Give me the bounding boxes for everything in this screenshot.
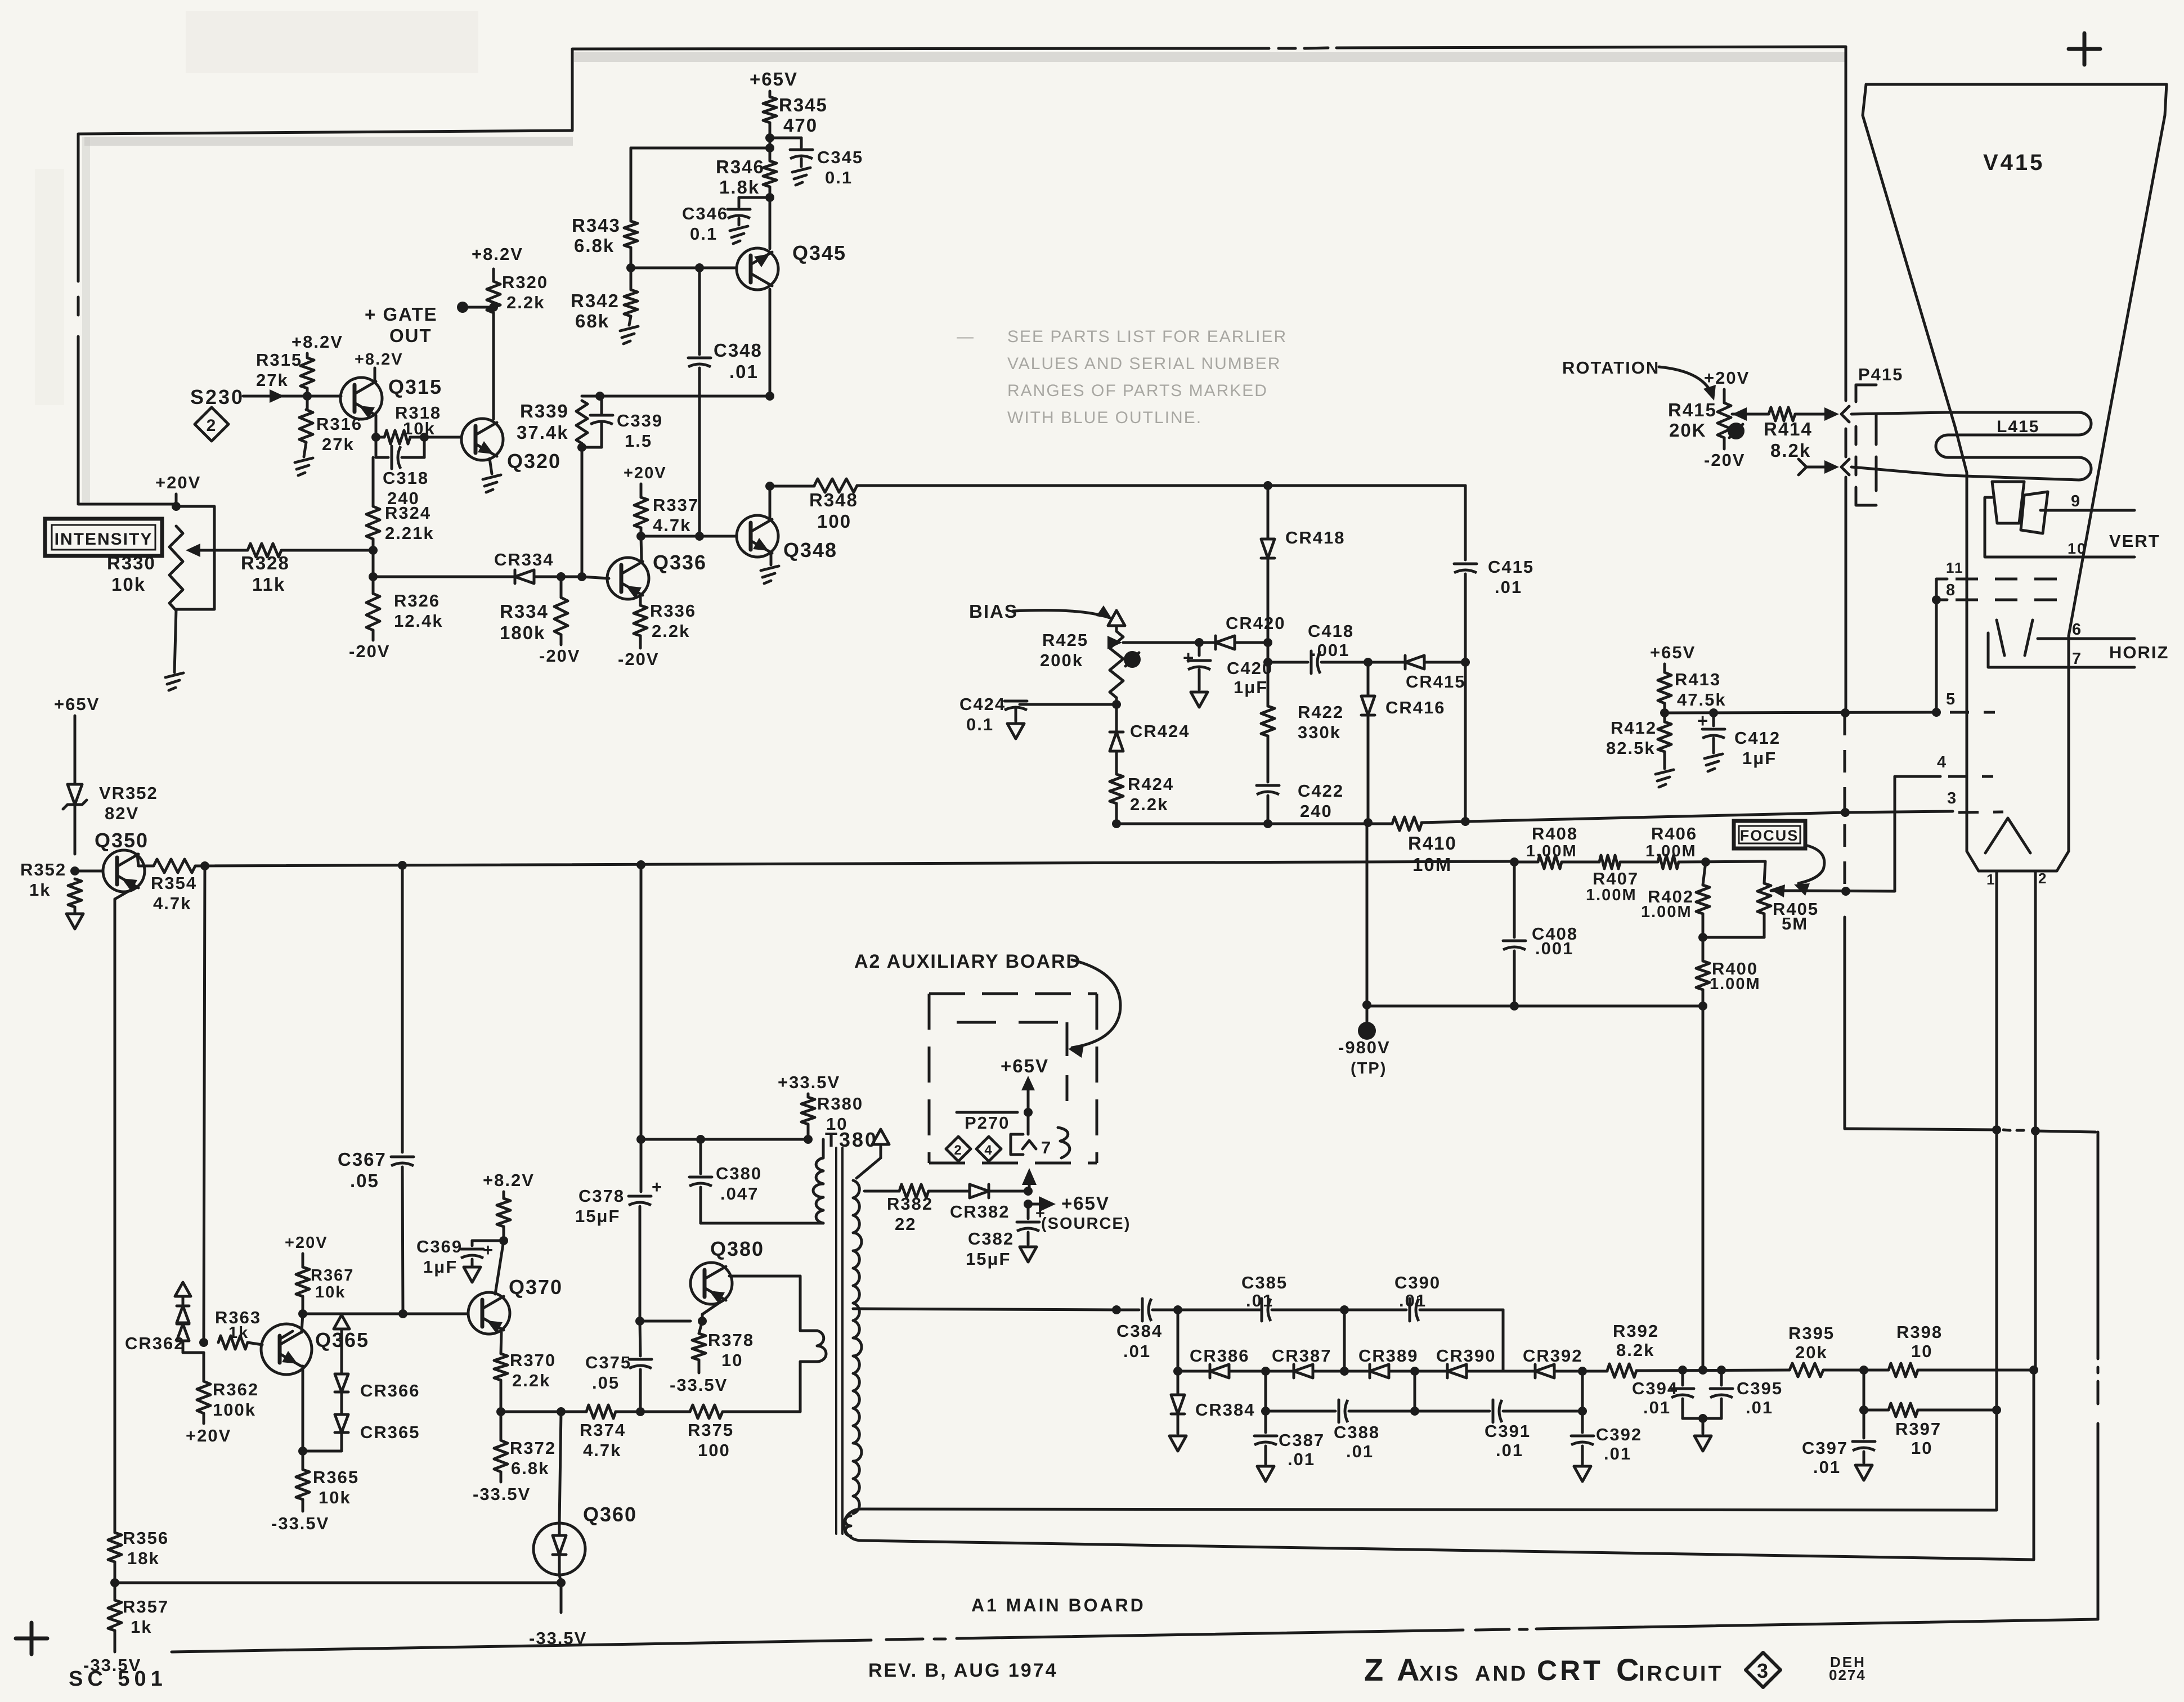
resistor R337	[634, 495, 699, 535]
horiz plates	[1988, 620, 2033, 667]
wire R343 top rail	[631, 147, 769, 150]
transformer T380 secondary	[853, 1180, 862, 1514]
A2 inner right edge	[1066, 1022, 1069, 1101]
svg-text:FOCUS: FOCUS	[1740, 827, 1799, 844]
wire CRT pin2 down	[2034, 871, 2037, 1131]
wire Q350 collector to rail	[137, 854, 138, 866]
resistor R320	[487, 272, 548, 313]
svg-text:+: +	[1697, 710, 1709, 731]
svg-text:C422: C422	[1298, 781, 1344, 801]
wire arrow to secondary	[856, 1158, 881, 1178]
svg-text:R415: R415	[1668, 399, 1717, 420]
svg-text:.01: .01	[1643, 1398, 1671, 1417]
label -33.5V (R365)	[271, 1499, 329, 1533]
wire Q345 emitter down	[769, 289, 772, 396]
arrow ROTATION	[1659, 367, 1716, 401]
wire R318 to Q320 base	[410, 433, 460, 442]
svg-text:R346: R346	[716, 156, 765, 177]
transistor Q365	[261, 1324, 369, 1375]
wire: boundary step vertical	[571, 49, 574, 131]
wire CRT pin1 down	[1995, 871, 1998, 1130]
svg-text:R397: R397	[1895, 1419, 1941, 1439]
wire R356 to R357	[110, 1562, 119, 1600]
wire main rail to R408	[1510, 857, 1538, 866]
title SC 501	[69, 1667, 167, 1691]
svg-text:R408: R408	[1532, 824, 1578, 843]
wire CR418 to C418 row	[1263, 558, 1272, 667]
label -20V (R415)	[1704, 438, 1745, 470]
wire C378 column top	[640, 865, 643, 1139]
svg-text:200k: 200k	[1040, 650, 1083, 670]
svg-text:CR384: CR384	[1195, 1400, 1255, 1420]
svg-text:R370: R370	[510, 1350, 556, 1370]
wire R425 to CR424	[1115, 698, 1118, 731]
wire R339 top to Q345 emitter node	[602, 392, 774, 401]
svg-text:+20V: +20V	[1704, 368, 1750, 388]
capacitor C391	[1485, 1400, 1531, 1460]
wire CR392 node down	[1578, 1367, 1587, 1411]
svg-text:100: 100	[817, 511, 851, 532]
diode CR420	[1216, 613, 1286, 649]
resistor R392	[1607, 1321, 1659, 1377]
svg-text:+: +	[1183, 647, 1195, 668]
svg-text:1k: 1k	[131, 1617, 152, 1637]
pot R425 knob	[1124, 651, 1141, 668]
svg-text:R392: R392	[1613, 1321, 1659, 1341]
ground R342	[620, 316, 638, 344]
wire R380 to rail	[807, 1124, 810, 1139]
wire +65V source arrow	[1024, 1193, 1131, 1233]
svg-text:10k: 10k	[403, 419, 436, 438]
wire R402/R405 bottom link	[1703, 914, 1764, 937]
wire R363 to Q365	[248, 1342, 262, 1345]
label +8.2V (R315)	[292, 332, 343, 352]
svg-text:CR362: CR362	[125, 1333, 185, 1353]
transistor Q380	[690, 1237, 764, 1304]
wire R375 to winding	[723, 1411, 800, 1413]
arrow BIAS to pot	[1013, 605, 1112, 619]
pot R425 wiper	[1107, 636, 1122, 649]
wire R345 to R346	[765, 123, 774, 161]
resistor R357	[108, 1597, 169, 1637]
svg-text:-33.5V: -33.5V	[473, 1484, 531, 1504]
transformer T380 feedback winding	[800, 1331, 826, 1412]
svg-text:C390: C390	[1394, 1273, 1441, 1292]
svg-text:-33.5V: -33.5V	[670, 1375, 728, 1395]
svg-text:5: 5	[1946, 690, 1956, 708]
svg-text:T380: T380	[825, 1128, 878, 1151]
wire pin 8 row	[1932, 581, 1956, 604]
svg-text:C387: C387	[1279, 1430, 1325, 1450]
wire R395 to R398	[1823, 1366, 1889, 1375]
svg-text:AND: AND	[1475, 1662, 1528, 1686]
svg-text:+: +	[483, 1240, 494, 1260]
svg-text:R362: R362	[213, 1380, 259, 1399]
wire pin 9	[2041, 492, 2134, 510]
svg-text:R339: R339	[520, 401, 569, 421]
svg-text:C345: C345	[817, 147, 863, 167]
svg-text:-980V: -980V	[1338, 1038, 1391, 1057]
svg-text:10k: 10k	[315, 1283, 346, 1301]
svg-text:.01: .01	[1288, 1449, 1315, 1469]
resistor R408	[1526, 824, 1578, 869]
svg-text:R407: R407	[1593, 869, 1639, 888]
wire R397 branch down	[1859, 1370, 1868, 1414]
svg-text:CR387: CR387	[1272, 1346, 1332, 1366]
svg-text:R375: R375	[688, 1420, 734, 1440]
wire C318 branch right	[423, 437, 426, 457]
transistor Q315	[340, 375, 442, 419]
transistor Q345	[737, 241, 846, 290]
capacitor C412	[1697, 710, 1781, 771]
wire R343 top drop	[630, 148, 633, 221]
svg-text:330k: 330k	[1298, 722, 1341, 742]
wire pin2 below bus	[2034, 1131, 2037, 1370]
svg-text:R374: R374	[580, 1420, 626, 1440]
diode CR386	[1178, 1346, 1266, 1378]
label pin 2	[2038, 870, 2047, 887]
wire P415 pin2 to CRT	[1851, 467, 1948, 475]
capacitor C345 branch	[770, 138, 863, 187]
label BIAS	[969, 601, 1018, 622]
svg-text:C388: C388	[1334, 1422, 1380, 1442]
svg-text:R406: R406	[1651, 824, 1697, 843]
resistor R334	[500, 577, 568, 643]
label -20V (R334)	[539, 635, 580, 666]
svg-text:(TP): (TP)	[1351, 1059, 1387, 1077]
svg-text:82V: 82V	[105, 803, 139, 823]
svg-text:1μF: 1μF	[1742, 748, 1777, 768]
svg-text:+20V: +20V	[285, 1234, 328, 1252]
wire R414 to P415 pin	[1795, 407, 1839, 421]
wire Q350 base	[75, 870, 103, 873]
svg-text:8: 8	[1946, 581, 1956, 599]
svg-text:6.8k: 6.8k	[574, 235, 615, 256]
svg-text:C397: C397	[1802, 1438, 1848, 1458]
svg-text:3: 3	[1757, 1659, 1769, 1682]
svg-text:1k: 1k	[228, 1324, 249, 1342]
wire C318 branch left	[375, 437, 378, 457]
svg-text:Z: Z	[1364, 1652, 1384, 1687]
ground Q348	[761, 566, 779, 583]
svg-text:+65V: +65V	[1650, 643, 1696, 662]
label +20V (R330)	[155, 473, 201, 492]
svg-text:CR386: CR386	[1190, 1346, 1250, 1366]
svg-text:-20V: -20V	[539, 646, 580, 666]
svg-text:P415: P415	[1858, 365, 1903, 384]
wire pin5 rail	[1665, 708, 1941, 717]
svg-text:82.5k: 82.5k	[1606, 738, 1656, 758]
svg-text:S230: S230	[190, 385, 244, 408]
svg-text:+33.5V: +33.5V	[778, 1072, 840, 1092]
diode CR389	[1344, 1346, 1419, 1378]
svg-text:CR415: CR415	[1406, 672, 1466, 691]
svg-text:27k: 27k	[256, 370, 289, 390]
svg-text:-33.5V: -33.5V	[83, 1655, 141, 1675]
wire pin8 dash	[1956, 599, 2060, 601]
svg-text:R372: R372	[510, 1438, 556, 1458]
wire +65V arrow (A2)	[1021, 1076, 1035, 1134]
pot R330 wiper	[186, 544, 214, 557]
svg-text:R380: R380	[817, 1094, 863, 1113]
capacitor C385	[1241, 1273, 1288, 1321]
wire C385 drop	[1173, 1310, 1182, 1376]
wire +20V to R415	[1723, 389, 1726, 403]
label A2 AUXILIARY BOARD	[854, 951, 1081, 972]
svg-text:C367: C367	[338, 1149, 387, 1170]
wire pin4 row	[1895, 776, 1940, 891]
pot R415 wiper	[1732, 407, 1747, 421]
capacitor C346 branch	[682, 197, 770, 244]
label P415	[1858, 365, 1903, 384]
resistor R370	[494, 1350, 556, 1390]
resistor R414	[1764, 407, 1813, 461]
resistor R382	[887, 1184, 933, 1234]
resistor R402	[1641, 862, 1710, 921]
svg-text:CR366: CR366	[360, 1381, 420, 1400]
wire VR352 to R352	[70, 806, 79, 875]
box INTENSITY	[45, 519, 162, 556]
svg-text:R378: R378	[708, 1330, 754, 1350]
svg-text:Q370: Q370	[509, 1276, 563, 1299]
resistor R400	[1696, 959, 1761, 993]
wire S230 arrow	[243, 389, 284, 403]
label R352 1k	[20, 860, 66, 900]
diamond ref 2 (P270)	[946, 1137, 971, 1161]
wire R367 to rail C	[302, 1296, 304, 1314]
capacitor C384	[1116, 1299, 1178, 1361]
svg-text:C: C	[1616, 1652, 1640, 1687]
wire CR390 node down	[1414, 1371, 1416, 1411]
transformer T380 core	[836, 1148, 842, 1534]
svg-text:.01: .01	[729, 361, 759, 382]
wire Q345 base row	[626, 263, 737, 272]
title DEH 0274	[1829, 1654, 1866, 1683]
resistor R406	[1620, 824, 1697, 869]
label +65V (VR352)	[54, 694, 100, 714]
wire Q320 collector up	[492, 313, 495, 419]
wire Q360 bottom	[557, 1575, 566, 1613]
svg-text:2: 2	[2038, 870, 2047, 887]
A2 box right edge	[1096, 994, 1098, 1163]
registration mark top right	[2069, 33, 2100, 65]
resistor R407	[1562, 855, 1639, 904]
capacitor C369	[416, 1237, 504, 1282]
title REV. B, AUG 1974	[868, 1660, 1058, 1681]
svg-text:R382: R382	[887, 1194, 933, 1214]
resistor R410	[1392, 817, 1457, 875]
label +65V (A2)	[1001, 1056, 1049, 1076]
svg-text:1k: 1k	[29, 880, 51, 900]
wire: A1 board boundary right edge	[2097, 1132, 2100, 1619]
label pin 3	[1947, 789, 1957, 807]
svg-text:C346: C346	[682, 204, 728, 223]
svg-text:CR365: CR365	[360, 1422, 420, 1442]
wire secondary to R382	[864, 1190, 899, 1193]
svg-text:0.1: 0.1	[966, 715, 994, 734]
wire: A1 board boundary left edge	[77, 134, 80, 504]
capacitor C397	[1802, 1410, 1875, 1480]
capacitor C378	[575, 1139, 663, 1321]
label P270	[965, 1113, 1010, 1133]
transformer T380 primary	[813, 1139, 823, 1223]
wire Q348 collector	[765, 482, 774, 518]
label +20V (R337)	[624, 464, 667, 482]
svg-text:A1 MAIN BOARD: A1 MAIN BOARD	[971, 1595, 1146, 1615]
wire +GATE OUT to R320	[463, 303, 498, 312]
label +8.2V (Q315)	[355, 351, 403, 369]
svg-text:—: —	[957, 327, 975, 346]
resistor R343	[572, 215, 638, 256]
arrow up R425 top	[1108, 610, 1125, 631]
wire +65V to R413	[1663, 664, 1666, 672]
svg-text:10: 10	[1911, 1438, 1932, 1458]
resistor R346	[716, 156, 777, 197]
svg-text:VALUES AND SERIAL NUMBER: VALUES AND SERIAL NUMBER	[1007, 354, 1281, 373]
note see parts list (gray)	[957, 327, 1287, 427]
capacitor C380	[689, 1139, 823, 1223]
resistor R356	[108, 1528, 169, 1568]
resistor R374	[580, 1405, 626, 1460]
svg-text:C348: C348	[714, 340, 763, 361]
wire pin 7	[2025, 650, 2134, 668]
pot R405 wiper	[1770, 884, 1795, 897]
svg-text:C415: C415	[1488, 557, 1534, 577]
wire C390 drop	[1340, 1310, 1349, 1376]
node S230 input	[190, 385, 244, 408]
transistor Q348	[737, 515, 837, 562]
pot R405 body	[1757, 861, 1819, 933]
wire R343 to base row	[630, 248, 633, 268]
svg-text:.01: .01	[1399, 1291, 1427, 1310]
svg-text:18k: 18k	[127, 1548, 160, 1568]
svg-text:1μF: 1μF	[423, 1257, 458, 1277]
svg-text:C395: C395	[1737, 1378, 1783, 1398]
wire R324 to R326	[369, 539, 378, 594]
wire C408 bottom rail	[1367, 1002, 1703, 1011]
svg-text:Q345: Q345	[792, 241, 846, 264]
svg-text:.01: .01	[1495, 577, 1522, 597]
wire R400 down to C394 node	[1698, 990, 1707, 1370]
wire Q350 emitter down	[115, 887, 136, 1533]
svg-text:R320: R320	[502, 272, 548, 292]
svg-text:.01: .01	[1813, 1457, 1841, 1477]
arrow A2 board	[1068, 960, 1120, 1058]
resistor R380	[801, 1094, 863, 1134]
svg-text:.01: .01	[1746, 1398, 1773, 1417]
label L415	[1997, 417, 2039, 436]
wire R337 to Q348 base row	[636, 528, 645, 541]
resistor R395	[1788, 1323, 1835, 1377]
resistor R336	[634, 596, 696, 641]
wire R413 to pin5 rail	[1660, 703, 1669, 717]
connector P415 pin2 chevron	[1841, 459, 1849, 475]
svg-text:.05: .05	[350, 1170, 379, 1191]
svg-text:Q380: Q380	[710, 1237, 764, 1260]
wire R402 to R400 node	[1698, 914, 1707, 961]
wire pin5 dash into CRT	[1950, 711, 1995, 714]
wire rail M right	[1503, 1407, 1587, 1416]
svg-text:+20V: +20V	[186, 1426, 231, 1445]
label A1 MAIN BOARD	[971, 1595, 1146, 1615]
svg-text:22: 22	[895, 1214, 916, 1234]
svg-text:R336: R336	[650, 601, 696, 621]
wire C415 to CR415	[1461, 574, 1470, 667]
diode CR387	[1261, 1346, 1344, 1378]
wire CR424 to R424	[1115, 752, 1118, 774]
wire R362 column from rail	[204, 866, 205, 1342]
svg-text:-20V: -20V	[349, 641, 390, 661]
wire +8.2V to R315	[306, 353, 309, 358]
transistor Q350	[95, 829, 149, 892]
wire CR387 node down	[1264, 1371, 1267, 1411]
svg-text:.001: .001	[1311, 640, 1349, 660]
svg-text:CR424: CR424	[1130, 721, 1190, 741]
svg-text:Q320: Q320	[507, 450, 561, 473]
wire +65V down	[74, 716, 77, 783]
svg-text:+8.2V: +8.2V	[292, 332, 343, 352]
wire P415 pin1 to L415	[1851, 412, 1947, 414]
wire C418 to CR415	[1364, 658, 1405, 667]
svg-text:1.8k: 1.8k	[719, 177, 760, 197]
svg-text:CR390: CR390	[1436, 1346, 1496, 1366]
svg-text:C394: C394	[1632, 1378, 1678, 1398]
A2 inner left stub	[957, 1111, 1017, 1114]
diode stack CR362	[125, 1282, 204, 1353]
resistor R362	[197, 1353, 259, 1420]
capacitor C367	[338, 865, 414, 1314]
svg-text:12.4k: 12.4k	[394, 611, 443, 631]
svg-text:R357: R357	[123, 1597, 169, 1616]
svg-text:.01: .01	[1246, 1291, 1273, 1310]
resistor R345	[763, 95, 828, 136]
wire R398 to pin2 node	[1918, 1369, 2034, 1372]
label +65V (R345)	[750, 69, 798, 89]
diode CR416	[1361, 662, 1446, 717]
capacitor C420 branch	[1183, 643, 1273, 707]
svg-text:R328: R328	[241, 553, 290, 573]
svg-text:+65V: +65V	[54, 694, 100, 714]
svg-text:IRCUIT: IRCUIT	[1639, 1662, 1724, 1686]
svg-text:R334: R334	[500, 601, 549, 622]
svg-text:.01: .01	[1496, 1440, 1523, 1460]
resistor R422	[1261, 662, 1344, 742]
svg-text:10M: 10M	[1412, 854, 1452, 875]
wire Q380 base	[640, 1320, 690, 1323]
wire Q315 emitter row	[371, 433, 384, 442]
svg-text:-20V: -20V	[618, 649, 659, 669]
svg-text:1.00M: 1.00M	[1645, 842, 1697, 860]
svg-text:C380: C380	[716, 1164, 762, 1183]
svg-text:C369: C369	[416, 1237, 463, 1256]
svg-text:L415: L415	[1997, 417, 2039, 436]
svg-text:9: 9	[2071, 492, 2081, 510]
diode CR418	[1261, 528, 1346, 558]
resistor R412	[1606, 713, 1671, 758]
svg-text:37.4k: 37.4k	[517, 422, 569, 443]
svg-text:0.1: 0.1	[825, 168, 853, 187]
A2 box bottom edge	[929, 1162, 1097, 1165]
svg-text:.01: .01	[1123, 1341, 1151, 1361]
wire pin3 rail right	[1421, 808, 1850, 826]
svg-text:C385: C385	[1241, 1273, 1288, 1292]
title Z Axis and CRT Circuit	[1364, 1652, 1724, 1687]
wire rail J first	[1173, 1305, 1262, 1314]
svg-text:2.2k: 2.2k	[512, 1371, 550, 1390]
label -33.5V (R378)	[670, 1360, 728, 1395]
svg-text:C424: C424	[959, 694, 1006, 714]
ground R330	[165, 673, 183, 690]
